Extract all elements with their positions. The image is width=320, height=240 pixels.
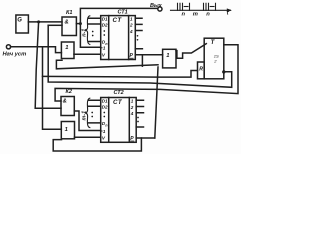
svg-text:n: n bbox=[105, 123, 107, 127]
CT1 field separator lines bbox=[109, 16, 129, 60]
svg-text:1: 1 bbox=[166, 53, 169, 59]
svg-text:1: 1 bbox=[131, 99, 134, 104]
CT1 D input stubs bbox=[89, 18, 101, 41]
wire inverter D2 out to trigger S bbox=[176, 44, 206, 59]
svg-text:СТ: СТ bbox=[113, 99, 123, 106]
svg-text:R: R bbox=[199, 67, 203, 73]
svg-text:n: n bbox=[182, 12, 186, 18]
wire trigger Q2 to K1 enable bbox=[48, 24, 62, 26]
node trigger Q2 dot bbox=[222, 70, 225, 73]
node K1 output junction bbox=[79, 22, 82, 25]
svg-text:4: 4 bbox=[130, 111, 134, 116]
trigger R sub-box bbox=[198, 62, 205, 79]
wire CT2 P riser bbox=[155, 67, 158, 138]
svg-text:2: 2 bbox=[129, 23, 133, 28]
wire CT2 P output bbox=[136, 137, 155, 139]
svg-text:&: & bbox=[65, 20, 69, 26]
pulse group 1 ellipsis dash bbox=[184, 6, 188, 8]
svg-text:n-1: n-1 bbox=[82, 29, 88, 37]
svg-text:1: 1 bbox=[65, 127, 68, 133]
underline P of CT2 bbox=[130, 140, 134, 142]
inverter D1 bbox=[61, 42, 74, 59]
generator G box bbox=[16, 15, 29, 33]
pin -1 of CT2 bbox=[101, 130, 103, 132]
svg-text:m-1: m-1 bbox=[82, 111, 88, 121]
timing axis arrow bbox=[227, 8, 232, 12]
wire K1 output bbox=[76, 23, 80, 25]
wire trigger Q2 output to K1 enable bbox=[48, 25, 232, 87]
wire K1 out to CT1 -1 input bbox=[80, 24, 100, 48]
inverter D2 bbox=[163, 49, 176, 68]
svg-text:К1: К1 bbox=[66, 10, 72, 16]
svg-text:n: n bbox=[206, 12, 210, 18]
wire inverter D1 out to CT1 V bbox=[74, 53, 101, 55]
timing axis bbox=[171, 9, 231, 11]
underline P of CT1 bbox=[130, 57, 134, 59]
terminal Vyh circle bbox=[158, 7, 162, 11]
AND gate K1 bbox=[62, 17, 76, 36]
svg-text:G: G bbox=[17, 18, 22, 24]
svg-text:&: & bbox=[63, 99, 67, 105]
CT2 D input stubs bbox=[89, 100, 101, 123]
wire G output bbox=[28, 21, 62, 23]
dots CT1 left inner bbox=[103, 30, 105, 32]
svg-text:D2: D2 bbox=[102, 22, 108, 27]
svg-text:4: 4 bbox=[129, 29, 133, 34]
svg-text:1: 1 bbox=[103, 46, 106, 52]
svg-text:D1: D1 bbox=[102, 99, 108, 104]
svg-text:m: m bbox=[193, 12, 198, 18]
counter CT2 box bbox=[101, 98, 137, 143]
svg-text:D2: D2 bbox=[102, 105, 108, 110]
CT1 output stubs bbox=[135, 18, 142, 48]
svg-text:Нач уст: Нач уст bbox=[3, 51, 27, 57]
svg-text:1: 1 bbox=[65, 45, 68, 51]
wire Nach ust branch to inverter D3 bbox=[43, 47, 62, 130]
dots CT2 right stub gap bbox=[137, 117, 139, 119]
svg-text:1: 1 bbox=[130, 17, 133, 22]
svg-text:СТ1: СТ1 bbox=[118, 9, 128, 15]
svg-text:К2: К2 bbox=[66, 89, 72, 95]
svg-text:D1: D1 bbox=[102, 17, 108, 22]
wire CT1 P output bbox=[135, 54, 162, 56]
wire trigger Q output to K2 enable bbox=[55, 45, 238, 101]
trigger T box bbox=[204, 38, 224, 79]
dots CT2 left stub gap bbox=[91, 112, 93, 114]
counter CT1 box bbox=[101, 16, 136, 60]
pulse group 2 ellipsis dash bbox=[210, 6, 214, 8]
CT1 brace bbox=[85, 16, 90, 45]
svg-text:n: n bbox=[105, 42, 107, 46]
svg-text:Вых: Вых bbox=[150, 3, 163, 9]
CT2 field separator lines bbox=[109, 98, 130, 143]
wire R net bbox=[43, 71, 198, 78]
dots CT1 right stub gap bbox=[137, 35, 139, 37]
wire K2 output to CT2 -1 bbox=[74, 111, 100, 131]
wire CT1 P branch down bbox=[141, 55, 143, 66]
pulse group 2 bars bbox=[204, 3, 216, 10]
dots CT2 left inner bbox=[103, 112, 105, 114]
inverter D3 bbox=[61, 122, 74, 139]
AND gate K2 bbox=[61, 97, 74, 116]
CT2 output stubs bbox=[136, 100, 143, 127]
svg-text:1: 1 bbox=[103, 129, 106, 135]
wire CT2 P bottom loop bbox=[53, 138, 141, 151]
wire inverter D3 out to CT2 V bbox=[75, 136, 101, 138]
svg-text:СТ2: СТ2 bbox=[114, 90, 124, 96]
wire L1 reload net bbox=[56, 60, 158, 69]
wire G to K2 input bbox=[35, 22, 61, 108]
terminal Nach ust circle bbox=[6, 45, 10, 49]
pulse group 1 bars bbox=[178, 3, 190, 10]
svg-text:2: 2 bbox=[130, 105, 134, 110]
pin -1 of CT1 bbox=[101, 47, 103, 49]
wire Nach ust to inverter D1 bbox=[11, 47, 62, 53]
dots CT1 left stub gap bbox=[92, 31, 94, 33]
node G junction bbox=[37, 20, 40, 23]
CT2 brace bbox=[85, 98, 90, 127]
svg-text:СТ: СТ bbox=[113, 17, 123, 24]
wire K1 out to Vyh terminal bbox=[80, 8, 157, 23]
